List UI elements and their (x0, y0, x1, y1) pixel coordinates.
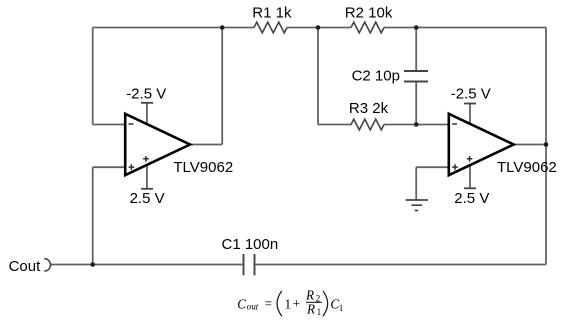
node junction C2-R3-U2 input (414, 122, 419, 127)
wire U1 V+ supply stub (146, 163, 148, 189)
wire from R2 to top-right corner (384, 27, 546, 29)
formula Cout = (1 + R2/R1) C1 (237, 288, 343, 318)
svg-text:R2 10k: R2 10k (345, 5, 393, 22)
node junction Cout rail (90, 262, 95, 267)
node junction R1-R2-R3 (316, 25, 321, 30)
power bar 2.5V U2 (464, 187, 476, 189)
wire U2 V+ supply stub (469, 163, 471, 188)
svg-text:R1 1k: R1 1k (252, 5, 292, 22)
op-amp U2 (449, 114, 514, 175)
wire non-inverting input U1 (93, 166, 127, 168)
svg-text:C: C (237, 296, 246, 311)
wire R3 to U2 inverting input (384, 124, 450, 126)
node junction U1 output feedback (220, 25, 225, 30)
svg-text:1: 1 (285, 296, 292, 311)
wire between R1 and R2 (287, 27, 351, 29)
wire left lower vertical to bottom rail (92, 167, 94, 264)
svg-text:-2.5 V: -2.5 V (451, 85, 491, 102)
svg-text:=: = (265, 296, 272, 311)
capacitor C2 (404, 71, 428, 82)
ground (406, 200, 429, 211)
svg-text:TLV9062: TLV9062 (173, 159, 233, 176)
svg-text:C1 100n: C1 100n (222, 236, 279, 253)
resistor R2 (351, 22, 384, 33)
op-amp U1 (125, 114, 190, 175)
svg-text:-2.5 V: -2.5 V (126, 85, 166, 102)
wire C2 branch vertical top (415, 28, 417, 72)
power bar -2.5V U1 (141, 102, 153, 104)
wire U2 non-inverting input (416, 166, 450, 168)
svg-text:2.5 V: 2.5 V (130, 190, 165, 207)
resistor R3 (351, 119, 384, 130)
wire bottom rail right of C1 (255, 264, 547, 266)
wire R3 branch vertical (317, 28, 319, 125)
wire U2 non-inverting to ground (415, 167, 417, 200)
node junction U2 output (544, 142, 549, 147)
power bar -2.5V U2 (464, 103, 476, 105)
wire U1 V- supply stub (146, 103, 148, 126)
svg-text:1: 1 (339, 303, 344, 313)
wire into R3 (318, 124, 352, 126)
svg-text:R3 2k: R3 2k (349, 100, 389, 117)
wire U1 feedback vertical (221, 28, 223, 145)
wire right vertical output net (545, 28, 547, 265)
wire U2 V- supply stub (469, 104, 471, 127)
svg-text:TLV9062: TLV9062 (497, 159, 557, 176)
wire top net: R1/R2 feedback rail (93, 27, 254, 29)
svg-text:R: R (305, 288, 314, 303)
wire U1 output stub (189, 144, 222, 146)
resistor R1 (254, 22, 287, 33)
node junction R2-C2 (414, 25, 419, 30)
svg-text:1: 1 (317, 307, 322, 317)
svg-text:+: + (293, 296, 301, 311)
svg-text:C2 10p: C2 10p (352, 68, 400, 85)
capacitor C1 (244, 254, 255, 275)
svg-text:out: out (247, 302, 259, 312)
svg-text:R: R (306, 301, 315, 316)
svg-text:2.5 V: 2.5 V (454, 190, 489, 207)
wire inverting input U1 (93, 124, 127, 126)
power bar 2.5V U1 (141, 188, 153, 190)
svg-text:Cout: Cout (9, 258, 42, 275)
wire bottom rail left of C1 (50, 264, 243, 266)
wire C2 bottom to node (415, 82, 417, 125)
wire left feedback vertical (92, 28, 94, 125)
terminal Cout port arc (44, 259, 50, 271)
wire U2 output stub (513, 144, 546, 146)
